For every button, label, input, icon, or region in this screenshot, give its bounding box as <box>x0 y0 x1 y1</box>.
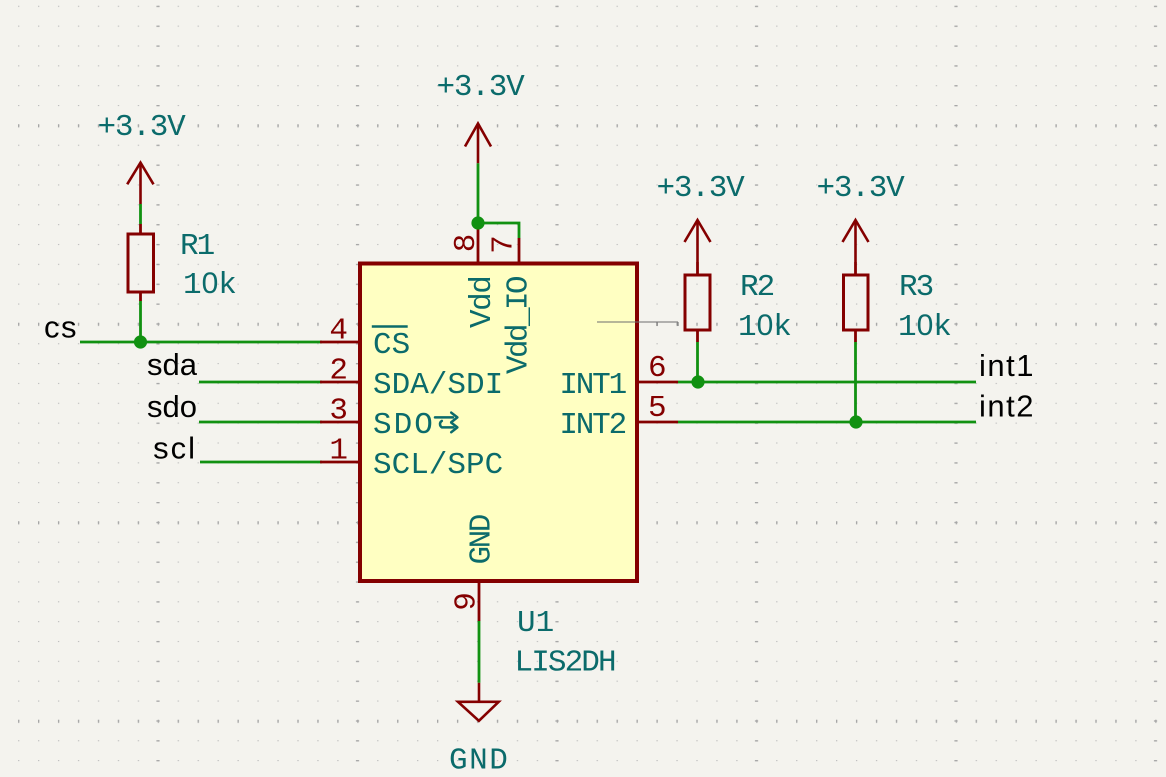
pin 3 <box>320 421 360 424</box>
junction Vdd <box>471 216 484 229</box>
pin 9 <box>478 581 481 621</box>
svg-text:Vdd_IO: Vdd_IO <box>502 276 537 374</box>
svg-text:+3.3V: +3.3V <box>816 171 905 206</box>
svg-text:U1: U1 <box>517 606 554 641</box>
pin name CS overline <box>372 325 408 328</box>
wire Vdd_IO jog <box>478 223 519 238</box>
wire int1 net <box>678 381 976 384</box>
wire GND <box>478 621 481 683</box>
wire cs net <box>80 341 322 344</box>
svg-text:Vdd: Vdd <box>465 277 500 328</box>
junction int1 <box>691 375 704 388</box>
wire R1 bottom <box>139 301 142 342</box>
pin 1 <box>320 461 360 464</box>
svg-text:R2: R2 <box>740 270 774 305</box>
svg-text:sda: sda <box>147 347 198 382</box>
svg-text:int1: int1 <box>979 348 1035 383</box>
svg-text:int2: int2 <box>979 389 1035 424</box>
svg-text:LIS2DH: LIS2DH <box>515 646 616 681</box>
ground symbol <box>458 683 499 721</box>
svg-text:1: 1 <box>329 434 348 469</box>
pin 6 <box>638 381 678 384</box>
svg-text:R1: R1 <box>180 229 215 264</box>
pin 2 <box>320 381 360 384</box>
power symbol +3.3V at R3 <box>843 220 869 262</box>
svg-text:SCL/SPC: SCL/SPC <box>373 448 503 483</box>
svg-text:GND: GND <box>465 514 500 564</box>
svg-text:10k: 10k <box>898 309 952 345</box>
svg-text:5: 5 <box>648 391 667 426</box>
wire R2 bottom <box>696 342 699 383</box>
resistor R2 pins <box>696 262 699 342</box>
svg-text:cs: cs <box>44 310 78 345</box>
svg-text:10k: 10k <box>183 267 237 303</box>
svg-text:INT1: INT1 <box>559 368 626 403</box>
svg-text:7: 7 <box>487 235 522 254</box>
pin 5 <box>638 421 678 424</box>
svg-text:GND: GND <box>449 744 509 777</box>
svg-text:SDO: SDO <box>373 408 435 443</box>
resistor R3 <box>844 275 869 330</box>
svg-text:4: 4 <box>329 314 348 349</box>
svg-text:2: 2 <box>329 354 348 389</box>
svg-text:8: 8 <box>449 234 484 253</box>
wire sda net <box>199 381 322 384</box>
pin 7 <box>518 238 521 263</box>
IC U1 body <box>360 264 637 582</box>
power symbol +3.3V at R1 <box>127 163 153 204</box>
note line (graphic) <box>597 322 678 326</box>
svg-text:3: 3 <box>329 394 348 429</box>
resistor R2 <box>685 275 710 330</box>
svg-text:9: 9 <box>450 592 485 611</box>
wire sdo net <box>199 421 322 424</box>
pin 4 <box>320 341 360 344</box>
svg-text:CS: CS <box>373 328 410 363</box>
svg-text:+3.3V: +3.3V <box>436 70 525 105</box>
svg-text:sdo: sdo <box>147 389 197 424</box>
svg-text:10k: 10k <box>738 309 792 345</box>
pin 8 <box>477 225 480 263</box>
power symbol +3.3V at U1 Vdd <box>465 124 491 164</box>
svg-text:R3: R3 <box>899 270 933 305</box>
resistor R3 pins <box>854 262 857 342</box>
svg-text:INT2: INT2 <box>559 408 625 443</box>
junction int2 <box>849 415 862 428</box>
resistor R1 <box>128 234 154 292</box>
svg-text:scl: scl <box>153 431 197 466</box>
wire R1 top <box>139 204 142 224</box>
svg-text:+3.3V: +3.3V <box>656 171 745 206</box>
svg-text:SDA/SDI: SDA/SDI <box>373 368 503 403</box>
wire scl net <box>200 461 322 464</box>
svg-text:+3.3V: +3.3V <box>97 110 186 145</box>
wire int2 net <box>678 421 976 424</box>
power symbol +3.3V at R2 <box>685 220 711 262</box>
wire R3 bottom <box>854 342 857 422</box>
junction cs <box>134 335 147 348</box>
resistor R1 pins <box>139 224 142 301</box>
wire Vdd vertical <box>477 163 480 223</box>
svg-text:6: 6 <box>648 351 667 386</box>
pin symbol bidirectional arrows <box>435 413 457 433</box>
